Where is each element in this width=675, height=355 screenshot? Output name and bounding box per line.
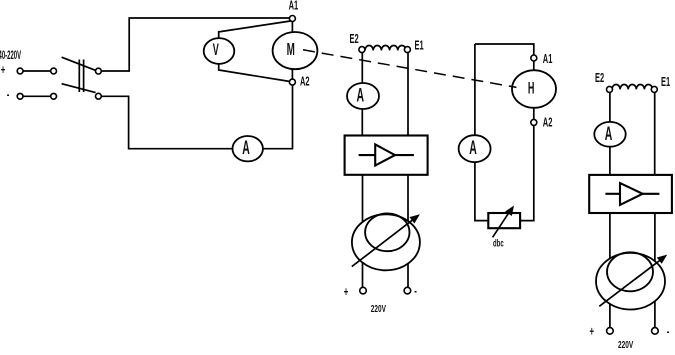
terminal variac + right: [607, 328, 614, 335]
variac outer circle: [352, 214, 420, 270]
svg-text:A1: A1: [289, 0, 299, 13]
variac inner outline right: [607, 252, 653, 291]
svg-text:220V: 220V: [371, 302, 386, 314]
ammeter A right: [594, 122, 625, 147]
wire E1 to rectifier box: [407, 53, 409, 136]
svg-text:E2: E2: [595, 72, 604, 85]
svg-text:+: +: [344, 285, 349, 300]
svg-text:H: H: [528, 79, 535, 98]
wire E1 to box right: [654, 92, 656, 174]
field winding coil: [365, 45, 406, 50]
variac outer circle right: [596, 253, 665, 310]
svg-text:+: +: [1, 63, 6, 78]
terminal E1 right: [651, 86, 657, 92]
ammeter A armature: [233, 136, 263, 161]
wire switch to loop top: [101, 18, 292, 71]
svg-text:-: -: [414, 284, 417, 299]
rheostat box: [488, 213, 520, 228]
svg-text:A: A: [605, 124, 613, 145]
terminal E2: [359, 47, 365, 53]
svg-text:-: -: [667, 324, 670, 339]
svg-text:A: A: [357, 85, 365, 106]
terminal row2 left: [17, 93, 23, 99]
terminal row2 right: [96, 93, 102, 99]
terminal variac - right: [652, 328, 659, 335]
terminal row2 mid: [51, 93, 57, 99]
wire H loop left: [474, 44, 476, 135]
wire row1 supply: [22, 70, 51, 72]
wire row2 supply: [22, 95, 51, 97]
terminal E2 right: [607, 86, 613, 92]
wire V bottom to A2 diagonal: [219, 64, 290, 82]
svg-text:A2: A2: [543, 117, 553, 130]
svg-text:40-220V: 40-220V: [0, 49, 22, 62]
variac inner outline: [365, 213, 409, 251]
terminal row1 left: [17, 68, 23, 74]
wire ammeter to rectifier box: [361, 109, 363, 136]
svg-text:A: A: [242, 138, 250, 159]
svg-text:220V: 220V: [618, 338, 633, 350]
svg-text:E1: E1: [661, 76, 670, 89]
switch S blade lower: [62, 84, 96, 93]
terminal row1 mid: [51, 68, 57, 74]
terminal A2 tach: [531, 119, 537, 125]
terminal variac +: [360, 287, 367, 294]
wire ammeter to bottom left: [475, 162, 488, 221]
svg-text:+: +: [590, 325, 595, 340]
rectifier diode symbol: [359, 154, 376, 156]
ammeter A tach: [459, 135, 491, 162]
tachogenerator H: [512, 70, 556, 108]
wire ammeter to box right: [609, 147, 611, 175]
switch link bar left: [78, 60, 80, 93]
svg-text:M: M: [287, 40, 295, 60]
wire E2 to ammeter right: [609, 92, 611, 122]
rectifier box right: [589, 175, 672, 213]
wire H loop top: [475, 44, 534, 55]
motor M: [273, 32, 318, 69]
rheostat arrow: [493, 210, 511, 238]
svg-text:-: -: [7, 88, 10, 103]
svg-text:A1: A1: [543, 53, 553, 66]
terminal A1: [289, 16, 295, 22]
wire box to variac right right-section: [654, 213, 656, 328]
svg-text:E1: E1: [415, 40, 424, 53]
wire M to A2 stub: [291, 68, 293, 79]
rectifier box: [345, 136, 428, 175]
wire box to variac left right-section: [609, 213, 611, 328]
svg-text:A: A: [469, 138, 477, 159]
svg-text:A2: A2: [300, 76, 310, 89]
variac outer outline right: [596, 253, 665, 310]
svg-text:E2: E2: [350, 33, 359, 46]
variac arrow: [352, 219, 414, 266]
wire A1 to M stub: [291, 21, 293, 33]
wire A1 to H stub: [533, 61, 535, 71]
svg-text:dbc: dbc: [493, 238, 504, 249]
variac inner circle right: [607, 252, 653, 291]
wire ammeter to A2 vertical: [263, 85, 293, 149]
variac outer outline: [352, 214, 420, 270]
terminal variac -: [404, 287, 411, 294]
voltmeter V: [204, 38, 235, 64]
terminal E1: [404, 47, 410, 53]
wire switch to loop bottom: [101, 96, 233, 148]
terminal A2: [289, 79, 295, 85]
wire A1 to V top diagonal: [219, 21, 291, 38]
switch S blade upper: [62, 57, 96, 70]
switch link bar right: [83, 60, 85, 93]
wire rheostat to A2 right: [520, 125, 534, 220]
variac inner circle: [365, 213, 409, 251]
wire E2 to ammeter: [361, 53, 363, 84]
ammeter A field: [347, 83, 379, 109]
wire box to variac right: [407, 175, 409, 287]
variac arrow right: [599, 260, 661, 307]
dashed coupling line M to H: [303, 50, 517, 88]
rectifier diode symbol right: [605, 193, 620, 195]
terminal row1 right: [96, 68, 102, 74]
svg-text:V: V: [213, 40, 219, 59]
field coil right: [612, 85, 652, 90]
wire H to A2 stub: [533, 108, 535, 120]
terminal A1 tach: [531, 55, 537, 61]
wire box to variac left: [362, 175, 364, 287]
